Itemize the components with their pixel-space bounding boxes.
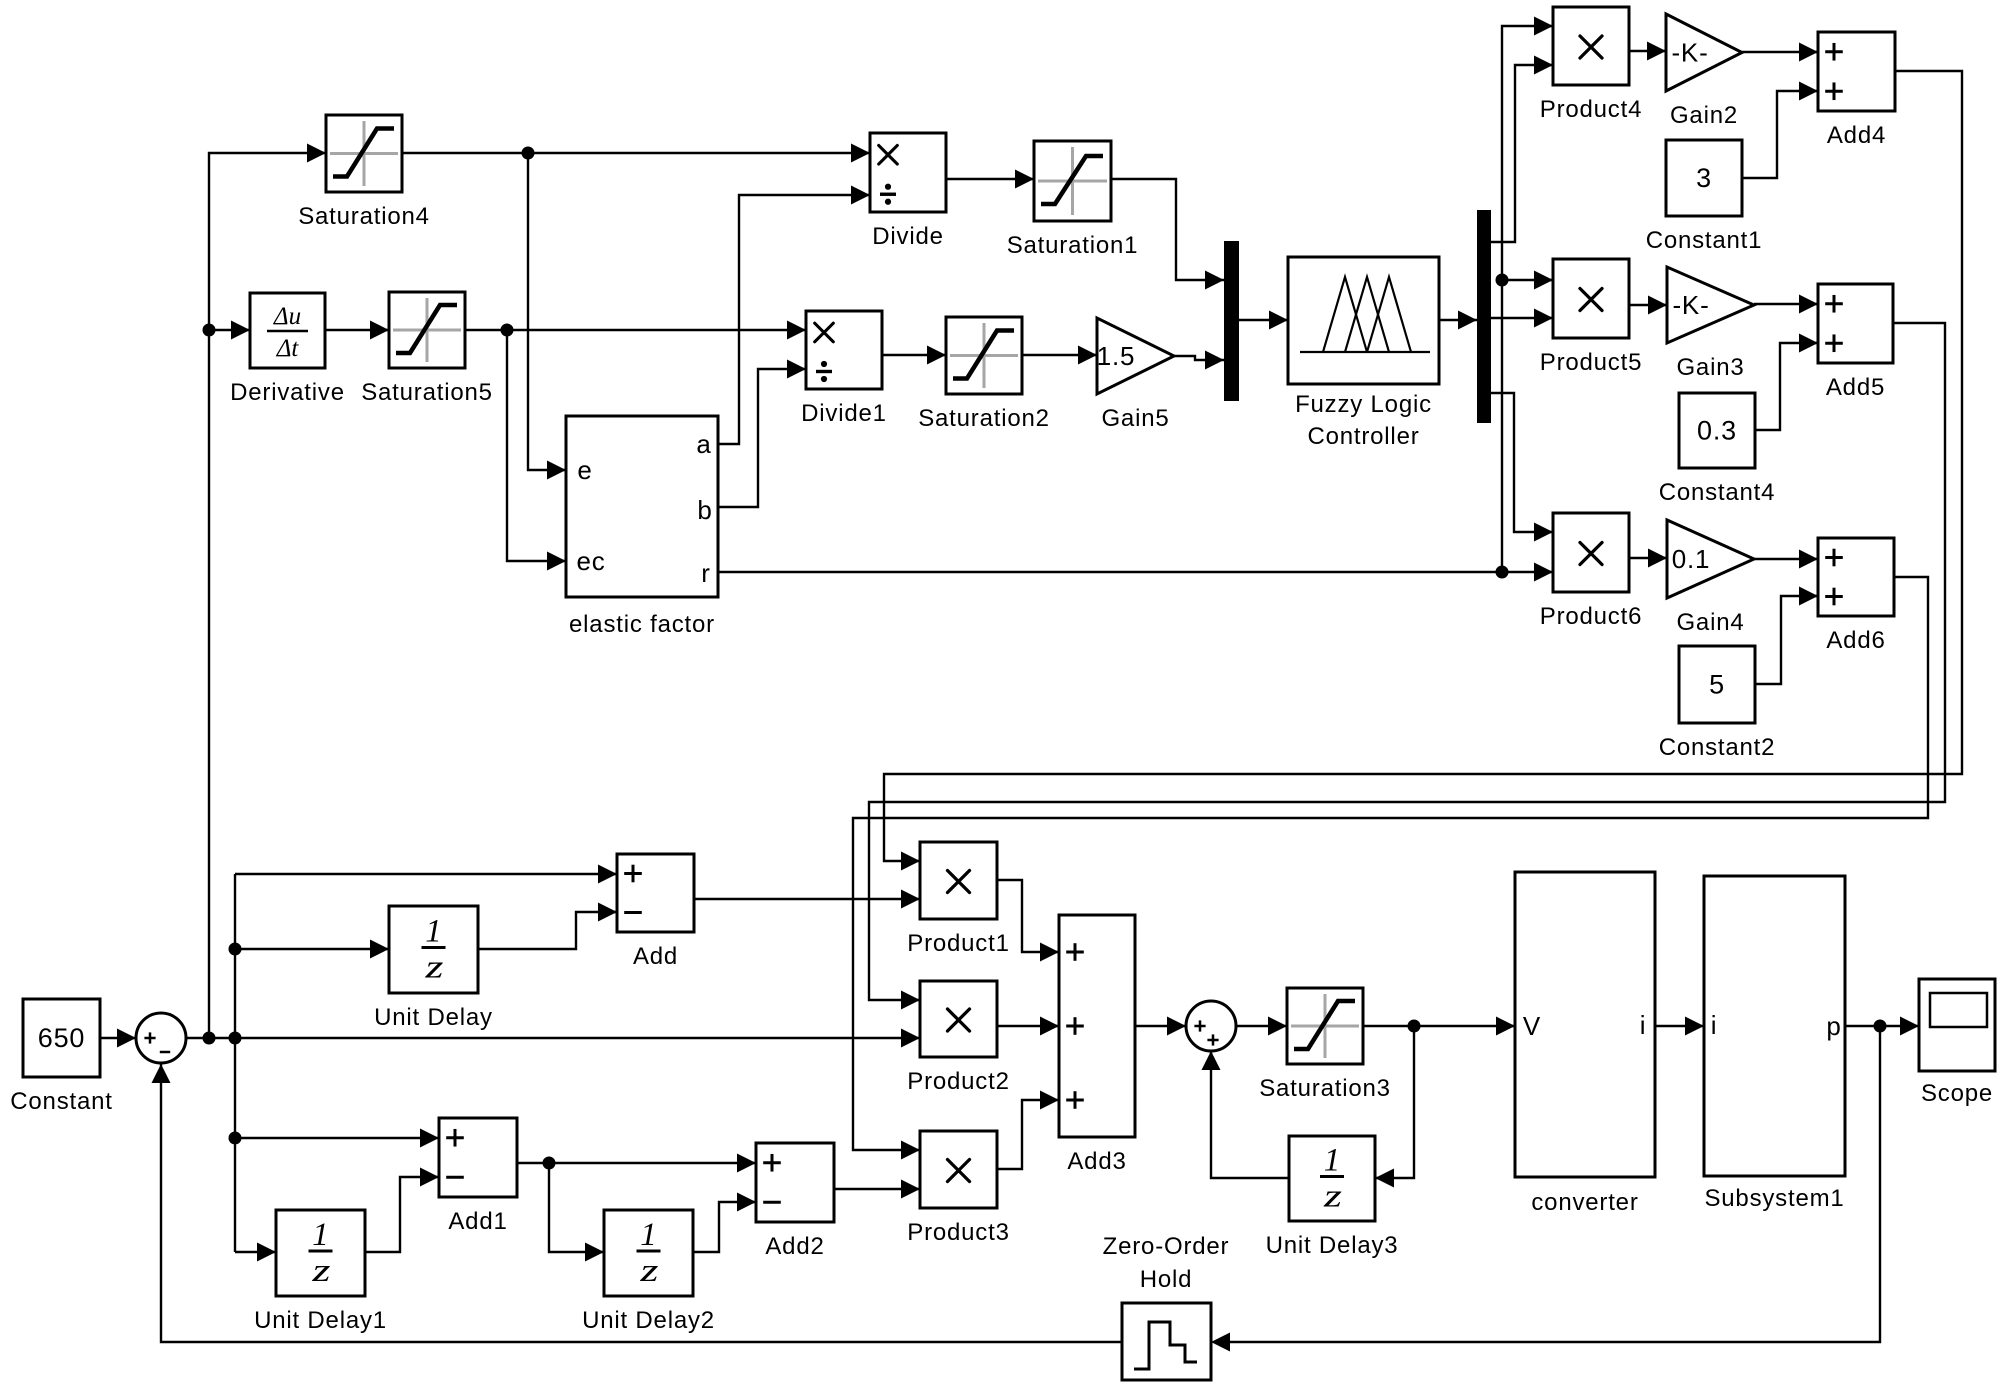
product block Product2 [907,981,1009,1095]
subsystem block converter [1515,872,1655,1216]
svg-text:i: i [1711,1010,1718,1040]
saturation block Saturation2 [918,317,1050,432]
wire converter to Subsystem1 [1655,1025,1704,1027]
svg-text:Unit Delay3: Unit Delay3 [1266,1232,1399,1259]
wire Saturation2 to Gain5 [1022,354,1097,356]
svg-text:Add4: Add4 [1827,122,1886,149]
svg-text:r: r [701,558,710,588]
svg-text:Fuzzy Logic: Fuzzy Logic [1295,391,1432,418]
wire Product2 to Add3 in2 [997,1025,1059,1027]
wire Zero-Order Hold to Sum1 [161,1064,1122,1342]
constant block Constant2 [1659,646,1776,761]
wire r up to Product4 in1 [1502,26,1553,572]
wire Demux out2 to Product5 in2 [1490,317,1553,319]
node sat3-out [1408,1020,1421,1033]
svg-text:a: a [696,429,711,459]
svg-text:Product6: Product6 [1540,603,1642,630]
node sat5-branch [501,324,514,337]
svg-text:Gain3: Gain3 [1676,354,1744,381]
wire trunk2 to Unit Delay1 [235,1251,276,1253]
wire feedback to Zero-Order Hold [1230,1026,1880,1342]
svg-text:1: 1 [640,1217,657,1253]
divide block Divide1 [801,311,887,427]
wire Product6 to Gain4 [1629,557,1667,559]
svg-text:Gain4: Gain4 [1676,609,1744,636]
svg-text:Gain5: Gain5 [1101,405,1169,432]
svg-text:Δu: Δu [273,303,301,330]
svg-text:-K-: -K- [1672,290,1709,320]
svg-text:Constant1: Constant1 [1646,227,1763,254]
wire trunk2 to Add in1 [235,873,617,875]
node sum-out-1 [203,1032,216,1045]
svg-text:Saturation1: Saturation1 [1007,232,1139,259]
sum block Add5 [1818,284,1893,401]
svg-text:Divide: Divide [872,223,944,250]
svg-text:z: z [639,1251,659,1288]
wire elastic b to Divide1 in2 [718,369,806,507]
unit delay block Unit Delay3 [1266,1136,1399,1259]
wire Unit Delay to Add in2 [478,912,617,949]
wire Fuzzy Logic Controller to Demux [1439,319,1477,321]
node subsystem-out [1874,1020,1887,1033]
svg-text:0.3: 0.3 [1697,416,1737,446]
svg-text:Saturation2: Saturation2 [918,405,1050,432]
svg-text:Add2: Add2 [765,1233,824,1260]
sum block Add2 [756,1143,834,1260]
product block Product1 [907,842,1009,957]
svg-text:Subsystem1: Subsystem1 [1704,1185,1844,1212]
sum junction Sum [136,1013,186,1063]
svg-text:Constant2: Constant2 [1659,734,1776,761]
svg-text:Add: Add [633,943,678,970]
svg-text:5: 5 [1709,670,1725,700]
mux bar [1224,241,1239,401]
unit delay block Unit Delay2 [582,1210,715,1334]
wire Add5 out to Product2 in1 [869,323,1945,1000]
subsystem block elastic factor [566,416,718,638]
svg-text:Unit Delay1: Unit Delay1 [254,1307,387,1334]
svg-text:Constant4: Constant4 [1659,479,1776,506]
svg-text:Saturation3: Saturation3 [1259,1075,1391,1102]
wire Saturation4 out to Divide in1 [402,152,870,154]
svg-text:1: 1 [1324,1143,1341,1179]
wire Product1 to Add3 in1 [997,880,1059,952]
wire Demux out3 to Product6 in1 [1490,393,1553,532]
wire Subsystem1 to Scope [1845,1025,1919,1027]
gain block Gain4 [1667,520,1754,636]
svg-text:Unit Delay2: Unit Delay2 [582,1307,715,1334]
node trunk2-ud [229,943,242,956]
svg-text:Saturation4: Saturation4 [298,203,430,230]
svg-text:Gain2: Gain2 [1670,102,1738,129]
gain block Gain3 [1667,267,1754,381]
svg-text:Δt: Δt [276,335,300,362]
node r-branch-2 [1496,274,1509,287]
gain block Gain2 [1666,14,1742,129]
svg-text:b: b [697,495,712,525]
gain block Gain5 [1097,318,1174,432]
wire Unit Delay1 to Add1 in2 [365,1177,439,1252]
wire branch to Unit Delay2 [549,1163,604,1252]
node trunk2-add1 [229,1132,242,1145]
wire Divide1 to Saturation2 [882,354,946,356]
product block Product6 [1540,513,1642,630]
sum block Add3 [1059,915,1135,1175]
unit delay block Unit Delay [374,906,493,1031]
wire Product4 to Gain2 [1629,50,1666,52]
svg-text:Scope: Scope [1921,1080,1993,1107]
saturation block Saturation5 [361,292,493,406]
svg-text:converter: converter [1531,1189,1638,1216]
wire Add6 out to Product3 in1 [853,577,1928,1150]
wire Constant2 to Add6 in2 [1755,596,1818,684]
svg-text:Zero-Order: Zero-Order [1103,1233,1230,1260]
wire Constant to Sum [100,1037,136,1039]
wire Gain2 to Add4 in1 [1742,51,1818,53]
wire Mux to Fuzzy Logic Controller [1239,319,1288,321]
saturation block Saturation4 [298,115,430,230]
fuzzy logic controller U-FLC [1288,257,1439,450]
constant block Constant4 [1659,393,1776,506]
wire Gain5 to Mux in2 [1174,356,1224,360]
svg-text:Saturation5: Saturation5 [361,379,493,406]
wire Sum2 to Saturation3 [1236,1025,1287,1027]
constant block Constant [10,999,112,1115]
divide block Divide [870,133,946,250]
wire trunk2 to Unit Delay [235,948,389,950]
sum junction Sum1 [1186,1001,1236,1051]
svg-text:V: V [1523,1011,1541,1041]
unit delay block Unit Delay1 [254,1210,387,1334]
svg-text:Add1: Add1 [448,1208,507,1235]
svg-text:e: e [577,455,592,485]
product block Product3 [907,1131,1009,1246]
scope block Scope [1919,979,1995,1107]
svg-text:z: z [424,948,444,985]
wire trunk up to Saturation4 [209,153,326,1038]
sum block Add1 [439,1118,517,1235]
wire Add3 to Sum2 [1135,1025,1186,1027]
svg-text:elastic factor: elastic factor [569,611,715,638]
wire Saturation5 out to Divide1 in1 [465,329,806,331]
wire Saturation1 to Mux in1 [1111,179,1224,280]
wire Derivative to Saturation5 [325,329,389,331]
svg-text:z: z [311,1251,331,1288]
wire elastic a to Divide in2 [718,195,870,444]
product block Product5 [1540,259,1642,376]
saturation block Saturation1 [1007,141,1139,259]
node add1-branch [543,1157,556,1170]
svg-text:0.1: 0.1 [1672,544,1711,574]
wire Add out to Product1 in2 [694,898,920,900]
svg-text:i: i [1640,1010,1647,1040]
wire Unit Delay2 to Add2 in2 [693,1202,756,1252]
svg-text:1: 1 [425,914,442,950]
svg-text:650: 650 [38,1023,85,1053]
node r-branch [1496,566,1509,579]
svg-text:ec: ec [576,546,605,576]
svg-text:Divide1: Divide1 [801,400,887,427]
saturation block Saturation3 [1259,988,1391,1102]
zero-order hold block Zero-Order Hold [1103,1233,1230,1380]
wire Add1 out to Add2 in1 [517,1162,756,1164]
wire feedback to Unit Delay3 [1375,1026,1414,1178]
wire Add4 out to Product1 in1 [884,71,1962,861]
wire Gain3 to Add5 in1 [1754,303,1818,305]
wire Constant4 to Add5 in2 [1755,343,1818,430]
wire Product3 to Add3 in3 [997,1100,1059,1169]
node sum-out-2 [229,1032,242,1045]
wire elastic r to Product6 in2 [718,571,1553,573]
constant block Constant1 [1646,140,1763,254]
wire Divide to Saturation1 [946,178,1034,180]
demux bar [1477,210,1491,423]
svg-text:z: z [1323,1177,1343,1214]
wire r branch to Product5 in1 [1502,279,1553,281]
wire branch to elastic e [528,153,566,470]
wire trunk2 down [234,874,236,1252]
svg-text:Add6: Add6 [1826,627,1885,654]
svg-text:Product5: Product5 [1540,349,1642,376]
svg-text:p: p [1826,1011,1841,1041]
wire Saturation3 to converter [1363,1025,1515,1027]
svg-text:Controller: Controller [1307,423,1419,450]
svg-text:1: 1 [312,1217,329,1253]
wire branch to elastic ec [507,330,566,561]
wire to Derivative [209,329,250,331]
wire Gain4 to Add6 in1 [1754,558,1818,560]
svg-text:Product3: Product3 [907,1219,1009,1246]
wire Product5 to Gain3 [1629,304,1667,306]
svg-text:Add3: Add3 [1067,1148,1126,1175]
node trunk-derivative [203,324,216,337]
wire Demux out1 to Product4 in2 [1490,65,1553,242]
svg-text:1.5: 1.5 [1097,341,1136,371]
wire Constant1 to Add4 in2 [1742,91,1818,178]
sum block Add6 [1818,538,1894,654]
wire Add2 out to Product3 in2 [834,1188,920,1190]
svg-text:-K-: -K- [1671,38,1708,68]
svg-text:Hold: Hold [1140,1266,1193,1293]
node sat4-branch [522,147,535,160]
product block Product4 [1540,7,1642,123]
svg-text:Product1: Product1 [907,930,1009,957]
svg-text:Product2: Product2 [907,1068,1009,1095]
svg-text:Unit Delay: Unit Delay [374,1004,493,1031]
sum block Add4 [1818,32,1895,149]
sum block Add [617,854,694,970]
svg-text:3: 3 [1696,163,1712,193]
svg-text:Add5: Add5 [1826,374,1885,401]
svg-text:Derivative: Derivative [230,379,345,406]
subsystem block Subsystem1 [1704,876,1845,1212]
wire trunk2 to Add1 in1 [235,1137,439,1139]
svg-text:Product4: Product4 [1540,96,1642,123]
wire Sum output to Product2 in2 [186,1037,920,1039]
svg-text:Constant: Constant [10,1088,112,1115]
wire Unit Delay3 to Sum2 [1211,1051,1289,1178]
derivative block Derivative [230,293,345,406]
